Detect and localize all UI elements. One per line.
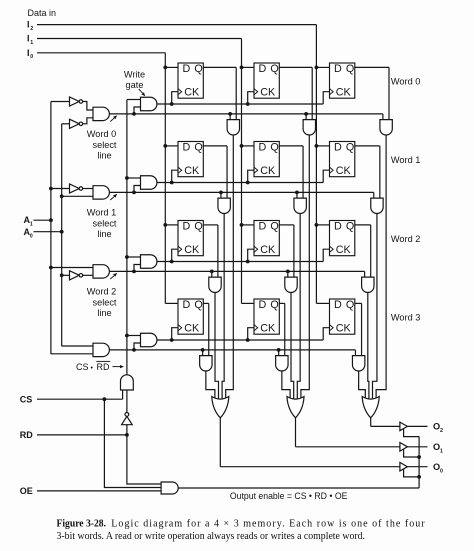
svg-text:D: D — [334, 141, 342, 153]
svg-text:D: D — [183, 299, 191, 311]
svg-text:D: D — [183, 141, 191, 153]
svg-text:Data in: Data in — [28, 8, 57, 18]
svg-text:I: I — [27, 48, 30, 58]
svg-text:CK: CK — [336, 165, 352, 177]
svg-text:line: line — [97, 151, 111, 161]
svg-text:Q: Q — [270, 299, 278, 311]
svg-text:Q: Q — [270, 141, 278, 153]
svg-text:Word 1: Word 1 — [87, 207, 116, 217]
svg-text:I: I — [27, 34, 30, 44]
svg-text:2: 2 — [440, 428, 443, 434]
svg-text:1: 1 — [440, 448, 443, 454]
svg-text:Q: Q — [270, 63, 278, 75]
svg-text:line: line — [97, 229, 111, 239]
svg-text:2: 2 — [30, 26, 33, 32]
svg-text:Q: Q — [346, 141, 354, 153]
svg-text:D: D — [259, 220, 267, 232]
svg-text:0: 0 — [440, 468, 443, 474]
svg-text:OE: OE — [20, 486, 33, 496]
svg-text:CK: CK — [260, 244, 276, 256]
svg-text:D: D — [259, 299, 267, 311]
svg-text:CK: CK — [184, 244, 200, 256]
svg-text:CK: CK — [184, 165, 200, 177]
svg-text:Word 2: Word 2 — [87, 286, 116, 296]
svg-text:Word 0: Word 0 — [87, 129, 116, 139]
svg-text:RD: RD — [97, 362, 110, 372]
svg-text:Q: Q — [194, 141, 202, 153]
svg-text:Write: Write — [124, 70, 145, 80]
svg-text:•: • — [91, 365, 94, 372]
svg-text:line: line — [97, 308, 111, 318]
svg-text:I: I — [27, 20, 30, 30]
svg-text:Q: Q — [270, 220, 278, 232]
svg-text:D: D — [183, 220, 191, 232]
svg-text:Q: Q — [346, 299, 354, 311]
svg-text:CS: CS — [76, 362, 89, 372]
svg-text:D: D — [259, 63, 267, 75]
svg-text:Q: Q — [194, 299, 202, 311]
svg-text:1: 1 — [30, 222, 33, 228]
svg-text:Figure 3-28.Logic diagram for: Figure 3-28.Logic diagram for a 4 × 3 me… — [57, 519, 426, 530]
svg-text:CK: CK — [336, 87, 352, 99]
svg-text:select: select — [92, 297, 116, 307]
svg-text:select: select — [92, 218, 116, 228]
svg-text:Q: Q — [346, 63, 354, 75]
svg-text:Q: Q — [346, 220, 354, 232]
svg-text:select: select — [92, 140, 116, 150]
svg-text:CK: CK — [336, 323, 352, 335]
svg-text:Output enable = CS • RD • OE: Output enable = CS • RD • OE — [230, 491, 348, 501]
svg-text:D: D — [334, 299, 342, 311]
svg-text:CK: CK — [184, 323, 200, 335]
svg-text:Q: Q — [194, 63, 202, 75]
svg-text:0: 0 — [30, 54, 33, 60]
svg-text:Word 3: Word 3 — [391, 313, 420, 323]
svg-text:CK: CK — [260, 87, 276, 99]
svg-text:Word 2: Word 2 — [391, 234, 420, 244]
svg-text:Word 1: Word 1 — [391, 155, 420, 165]
svg-text:Word 0: Word 0 — [391, 77, 420, 87]
svg-text:gate: gate — [126, 80, 144, 90]
svg-text:D: D — [183, 63, 191, 75]
svg-text:1: 1 — [30, 40, 33, 46]
svg-text:Q: Q — [194, 220, 202, 232]
svg-text:CS: CS — [20, 394, 33, 404]
svg-text:CK: CK — [260, 165, 276, 177]
svg-text:D: D — [334, 220, 342, 232]
svg-text:CK: CK — [336, 244, 352, 256]
svg-text:RD: RD — [20, 430, 33, 440]
svg-text:D: D — [259, 141, 267, 153]
svg-text:CK: CK — [260, 323, 276, 335]
svg-text:0: 0 — [30, 233, 33, 239]
svg-text:CK: CK — [184, 87, 200, 99]
svg-text:3-bit words. A read or write: 3-bit words. A read or write operation a… — [57, 531, 366, 542]
svg-text:D: D — [334, 63, 342, 75]
